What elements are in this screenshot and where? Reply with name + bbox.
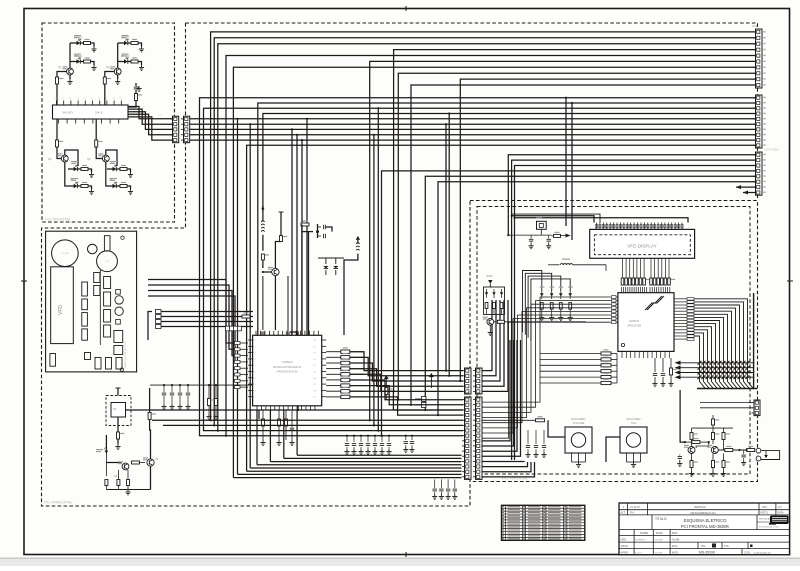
separator line panel [99, 270, 101, 345]
pin U1 top 11 [300, 331, 302, 336]
resistor R34 [208, 399, 211, 406]
capacitor C9 row [346, 436, 348, 442]
pin tick top keyboard block 5 [84, 101, 86, 106]
pin U2 right 14 [674, 338, 687, 340]
wire X2 stem down [540, 229, 542, 235]
wire bottom bus net6 [270, 461, 461, 463]
wire U2 right net7 staircase [694, 317, 729, 388]
ground phones 3 [723, 471, 725, 474]
wire bottom bus net2 [238, 473, 462, 475]
wire U2 left net3 to CN5 [482, 304, 610, 412]
pin U2 right 13 [674, 335, 687, 337]
wire panel signal 1 to U1 [148, 280, 235, 344]
pin U1 top 9 [291, 331, 293, 336]
wire loop net1 [523, 271, 542, 333]
pin tick top keyboard block 7 [99, 101, 101, 106]
svg-text:ASS.: ASS. [762, 506, 768, 509]
pin tick top keyboard block 10 [120, 101, 122, 106]
encoder VOLUME ground [578, 462, 580, 465]
resistor R61 top [690, 433, 693, 440]
ground D15 [560, 315, 562, 318]
svg-text:MAT.: MAT. [672, 531, 678, 535]
pin U1 top 8 [286, 331, 288, 336]
pin U1 top 3 [264, 331, 266, 336]
wire caps bus [318, 257, 344, 259]
svg-text:P14: P14 [313, 365, 316, 367]
svg-text:P15: P15 [313, 372, 316, 374]
pin tick top keyboard block 4 [77, 101, 79, 106]
pin U2 left 4 [610, 307, 618, 309]
dashed outline PCI FRONTAL keyboard board (top-left) [42, 23, 175, 222]
wire U1 bottom pin 2 drop [269, 410, 271, 461]
pin U2 right 5 [674, 310, 687, 312]
small square r1 [116, 290, 121, 295]
svg-text:ROBERTO: ROBERTO [635, 540, 646, 542]
capacitor C12 row [367, 436, 369, 442]
pin U1 top 15 [317, 331, 319, 336]
resistor Rh3 display ladder [540, 364, 601, 366]
svg-text:VOLUME: VOLUME [61, 253, 69, 255]
pin tick top keyboard block 2 [63, 101, 65, 106]
connector CN-C 4-pad (mid-left) [156, 310, 162, 314]
pin U2 bottom 8 [651, 351, 653, 358]
resistor R36 [485, 303, 488, 309]
ground C33 [543, 452, 545, 455]
pin U2 top-a 5 [629, 287, 631, 293]
button column mid c [104, 310, 111, 323]
svg-text:GND: GND [486, 274, 494, 278]
wire rail top extra [512, 214, 600, 222]
pin U2 top-b 8 [664, 287, 666, 293]
transistor Q8 right board [487, 318, 494, 325]
VFD window [51, 267, 74, 344]
encoder JOG leg 1 [626, 453, 628, 462]
ground C10 [353, 449, 355, 452]
wire U2 right net1 staircase [694, 299, 753, 388]
dot remote junction [297, 409, 299, 411]
wire CN4 pin5 into display board [482, 300, 508, 391]
wire U2 right net13 staircase [694, 336, 705, 388]
connector CN5a lower-left column [465, 397, 472, 479]
encoder VOLUME body [565, 427, 592, 453]
LED D8 row [113, 184, 117, 188]
wire Q3 emitter [65, 162, 74, 186]
resistor R38 [500, 303, 503, 309]
wire key net3 branch down to U1 [291, 129, 293, 335]
capacitor C2 [262, 276, 264, 330]
pin U1 left 2 [248, 345, 253, 347]
pin U2 top-b 2 [651, 287, 653, 293]
pad row mid-left of IC [226, 326, 230, 331]
wire panel signal 4 to U1 [148, 296, 235, 362]
power rail vertical right of U2 [753, 293, 755, 389]
capacitor C14 row [381, 436, 383, 442]
wire remote out right [126, 409, 299, 411]
svg-text:27.11.97: 27.11.97 [630, 505, 640, 509]
crystal X1 circuit [302, 231, 313, 233]
wire U1 bottom pin 1 drop [256, 410, 258, 465]
wire tap down to X2 area 1 [565, 98, 567, 226]
pin tick bottom keyboard block 3 [75, 119, 77, 124]
pin U1 left 4 [248, 358, 253, 360]
pin tick bottom keyboard block 5 [92, 119, 94, 124]
wire bus-A net5 (corner at 226,56) to CN1 pin5 [226, 56, 756, 436]
ground D7 [130, 172, 132, 175]
resistor R65 [692, 441, 700, 444]
ground C14 [381, 449, 383, 452]
ground remote [117, 444, 119, 447]
wire U1 bottom pin 4 drop [296, 410, 298, 455]
svg-text:Q4: Q4 [87, 157, 91, 161]
capacitor C10 row [353, 436, 355, 442]
title block outline [619, 503, 790, 555]
ground C1 [138, 86, 140, 89]
resistor R58 [670, 358, 672, 368]
pin U1 left 1 [248, 339, 253, 341]
panel small btn mid [85, 353, 91, 360]
wire U1 data2 to CN4 pin [350, 363, 463, 381]
button mid f [114, 346, 123, 355]
connector CN-A board-edge (5-pin) [173, 116, 179, 143]
wire U2 right net4 staircase [694, 308, 741, 388]
wire loop net4 [531, 279, 570, 341]
wire U1 data3 to CN4 pin [350, 369, 463, 387]
resistor bank RB2 above U2 [650, 278, 653, 285]
wire L3 drop [605, 265, 607, 271]
wire keyboard net 5 CN-B to CN2 [190, 139, 756, 141]
wire feeder net B to CN5 [163, 424, 463, 426]
svg-text:P9: P9 [254, 397, 256, 399]
svg-text:CD5023: CD5023 [629, 319, 640, 323]
connector CN3 right edge (8-pin) [756, 152, 763, 195]
svg-text:CN ST SAIDA: CN ST SAIDA [764, 149, 779, 152]
resistor bank RB1 above U2 [621, 278, 624, 285]
pin U1 top 14 [313, 331, 315, 336]
wire bus-C net1 to CN3 pin1 (VFD left rail) [508, 155, 755, 235]
wire bus-A net7 (corner at 233,67) to CN1 pin7 [233, 67, 755, 477]
wire U2 right net6 staircase [694, 314, 733, 388]
small square r2 [116, 320, 121, 325]
wire panel signal 3 to U1 [148, 291, 235, 356]
arrow right R35 [561, 235, 567, 237]
wire U2 right net12 staircase [694, 333, 709, 388]
wire Q1 emitter to ground [69, 75, 71, 79]
svg-text:DES.: DES. [621, 538, 628, 542]
svg-text:Q2: Q2 [106, 65, 110, 69]
resistor R6 remote [117, 432, 120, 439]
remote sensor dashed box [106, 396, 131, 426]
wire bus-A net1 (corner at 211,32) to CN1 pin1 [211, 32, 756, 420]
svg-text:P10: P10 [313, 340, 316, 342]
pin U2 top-b 7 [662, 287, 664, 293]
encoder JOG body [620, 427, 647, 453]
wire CN6 feed [700, 402, 754, 404]
svg-text:PAINEL FRONTAL MD-3500K: PAINEL FRONTAL MD-3500K [124, 341, 127, 368]
inductor L1 [262, 196, 264, 221]
wire rail tee to VFD right [515, 218, 689, 223]
wire U2 left net7 to CN5 [482, 319, 610, 433]
wire CN5 pin9 into display board [482, 340, 510, 441]
svg-text:MD-3500K: MD-3500K [699, 551, 716, 555]
wire U1 data7 to CN4 pin [350, 391, 463, 410]
ground C15 [388, 449, 390, 452]
wire U1 data0 to CN4 pin [350, 352, 463, 371]
wire CN-C pad4 to main IC [161, 326, 253, 328]
resistor R3 near block [128, 100, 136, 107]
capacitor C29 left [678, 456, 682, 458]
ground phones 2 [712, 471, 714, 474]
pad P1 left of U1 [235, 348, 241, 351]
resistor ladder R21 of U1 [326, 356, 341, 358]
pin U2 top-a 2 [623, 287, 625, 293]
svg-text:COD: COD [744, 550, 750, 554]
wire Q8 net right [504, 321, 586, 323]
encoder JOG shaft [626, 433, 640, 447]
bottom row button 2 [106, 358, 112, 370]
svg-text:Q3: Q3 [48, 157, 52, 161]
pin U2 top-a 11 [642, 287, 644, 293]
pin U1 right 7 [322, 377, 327, 379]
svg-text:ALT.: ALT. [621, 511, 626, 515]
ground C12 [367, 449, 369, 452]
pin U2 top-a 12 [644, 287, 646, 293]
pin U2 right 9 [674, 323, 687, 325]
component X2 crystal box [537, 221, 547, 229]
wire comb to RB1 5 [636, 258, 638, 271]
pin U2 bottom 11 [664, 351, 666, 358]
supply arrow mid zone [429, 373, 434, 377]
ground C32 [535, 452, 537, 455]
wire U2 right net2 staircase [694, 302, 749, 388]
svg-text:P5: P5 [254, 372, 256, 374]
wire CN4 pin4 into display board [482, 300, 504, 386]
pin U2 left 6 [610, 314, 618, 316]
pin U2 right 10 [674, 326, 687, 328]
frame centering tick bottom [405, 552, 407, 557]
polarized capacitor C7 [335, 266, 337, 268]
wire CN-C pad2 to main IC [161, 316, 253, 318]
ground U1 bottom 1 [262, 440, 264, 443]
pin tick bottom keyboard block 7 [109, 119, 111, 124]
wire Q2 emitter to ground [117, 75, 119, 79]
wire bottom bus net3 [247, 470, 462, 472]
svg-text:DESCRIMINACAO: DESCRIMINACAO [690, 511, 716, 515]
wire Q10 out right [718, 449, 755, 451]
transistor Q10 phones [711, 447, 718, 454]
pin U1 bottom 5 [274, 406, 276, 411]
connector CN1 right edge (10-pin) [756, 29, 763, 88]
resistor R31 [278, 419, 281, 426]
resistor R33 mid zone [384, 375, 389, 379]
company logo CCE [769, 516, 789, 525]
resistor R9b [117, 480, 120, 486]
resistor ladder R22 of U1 [326, 362, 341, 364]
resistor R35 right of X2 [552, 235, 553, 237]
wire loop net3 [528, 276, 561, 338]
svg-text:P2: P2 [254, 353, 256, 355]
transistor Q4 [96, 151, 102, 159]
svg-text:P19: P19 [313, 397, 316, 399]
transistor Q5 [122, 463, 129, 470]
resistor R11 [280, 236, 283, 242]
frame centering tick left [21, 280, 27, 282]
wire X2 cross bus [529, 234, 551, 236]
wire crystal to IC 2 [308, 232, 310, 335]
button column mid d [104, 325, 111, 337]
wire U2 left net8 to CN5 [482, 322, 610, 438]
resistor R1 base [57, 72, 67, 78]
encoder VOLUME leg 2 [578, 453, 580, 462]
svg-text:P8: P8 [254, 390, 256, 392]
svg-text:P11: P11 [313, 346, 316, 348]
connector CN4a upper-left column [465, 368, 472, 394]
pad P7 left of U1 [235, 386, 241, 389]
resistor R12 crystal [301, 223, 309, 226]
pin U1 top 2 [259, 331, 261, 336]
svg-text:ESQUADRIAS US-DE: ESQUADRIAS US-DE [759, 526, 780, 529]
pin U2 bottom 9 [655, 351, 657, 358]
svg-text:P12: P12 [313, 353, 316, 355]
pad P5 left of U1 [235, 373, 241, 376]
phones jack circle 2 [115, 307, 123, 315]
LED D4 [118, 61, 124, 63]
wire comb to RB2 5 [664, 258, 666, 271]
polarized capacitor C6 [325, 266, 327, 268]
wire Q1 collector [69, 43, 71, 68]
connector pad pair mid zone [422, 397, 427, 402]
wire CN5 pin15 into display board [482, 462, 531, 472]
wire comb to RB1 4 [632, 258, 634, 271]
wire bus-B net2 to CN2 pin2 [258, 103, 756, 335]
wire cluster top rail [105, 435, 107, 448]
pin U1 left 10 [248, 396, 253, 398]
svg-text:CD5022: CD5022 [281, 360, 292, 364]
wire bus-B net10 to CN2 pin10 [247, 145, 756, 471]
ground C30 [743, 460, 745, 463]
pin U2 top-a 1 [621, 287, 623, 293]
resistor R37 [493, 303, 496, 309]
pin tick top keyboard block 8 [106, 101, 108, 106]
wire key net4 branch down to U1 [296, 135, 298, 335]
svg-text:NOME: NOME [640, 531, 648, 535]
pin U1 right 1 [322, 339, 327, 341]
wire branch vertical net1 x=374 [373, 135, 375, 426]
headphone jack J1 [756, 448, 761, 453]
revision table text smudges [508, 506, 521, 507]
svg-text:MICROCONTROLER W: MICROCONTROLER W [273, 365, 302, 369]
svg-text:Q1: Q1 [58, 65, 62, 69]
wire U2 left net2 to CN5 [482, 301, 610, 408]
wire horizontal signal3 with arrow [679, 372, 754, 374]
diode D10 [486, 289, 488, 298]
resistor R42 [559, 303, 562, 310]
wire U1 bottom pin 3 drop [283, 410, 285, 458]
wire L1 bottom [262, 235, 264, 251]
encoder JOG ground [633, 462, 635, 465]
resistor ladder R20 of U1 [326, 351, 341, 353]
pin U2 top-a 8 [635, 287, 637, 293]
pin U2 top-a 9 [637, 287, 639, 293]
wire remote vcc top [117, 388, 119, 396]
pin U2 top-b 6 [660, 287, 662, 293]
pin U1 left 9 [248, 389, 253, 391]
resistor R64b bottom [722, 461, 725, 468]
resistor R64 bottom [712, 461, 715, 468]
revision history table [502, 505, 585, 540]
capacitor C17 filter [171, 384, 173, 386]
wire U2 right net11 staircase [694, 330, 713, 388]
wire U1 data4 to CN4 pin [350, 374, 463, 391]
wire CN5 pin14 into display board [482, 462, 528, 467]
wire key net1 branch deep [236, 118, 238, 120]
pin U1 bottom 9 [292, 406, 294, 411]
pad P2 left of U1 [235, 354, 241, 357]
wire U1 data1 to CN4 pin [350, 357, 463, 375]
pin U2 bottom 2 [625, 351, 627, 358]
capacitor C20 [530, 235, 532, 238]
wire horizontal signal2 with arrow [679, 367, 754, 369]
ground D8 [130, 189, 132, 192]
pin U2 bottom 5 [638, 351, 640, 358]
panel screw bottom-right [120, 368, 123, 371]
resistor ladder R27 of U1 [326, 390, 341, 392]
resistor Rh4 display ladder [540, 370, 601, 372]
capacitor C1 near block [135, 90, 137, 94]
pin U2 right 8 [674, 320, 687, 322]
svg-text:P1: P1 [254, 346, 256, 348]
svg-text:VFD: VFD [58, 305, 64, 315]
pin U2 left 8 [610, 321, 618, 323]
svg-text:P18: P18 [313, 390, 316, 392]
wire R8 to Q6 [140, 462, 146, 464]
svg-text:VOLUME: VOLUME [573, 421, 585, 425]
wire remote branch up [290, 332, 298, 410]
wire block to Q4 [95, 119, 97, 140]
wire riser to remote net [149, 388, 151, 396]
wire R65 to Q9 base [696, 442, 709, 448]
ground C11 [360, 449, 362, 452]
pin U1 right 9 [322, 389, 327, 391]
junction dot key net5 [301, 139, 303, 141]
wire Q8 out [494, 321, 497, 323]
pin U2 bottom 12 [668, 351, 670, 358]
wire bus-C net5 corner to center [425, 176, 755, 410]
ground D5 [91, 172, 93, 175]
wire key net2 branch deep [249, 123, 251, 125]
wire net x307 down to U1 [306, 119, 308, 335]
svg-text:P17: P17 [313, 384, 316, 386]
VFD pin comb [596, 223, 598, 230]
wire U2 right net5 staircase [694, 311, 737, 388]
wire Q5 base rail [106, 462, 121, 464]
svg-text:PCI FRONTAL MD-3500K: PCI FRONTAL MD-3500K [681, 524, 730, 529]
wire bus-A net3 (corner at 218,44) to CN1 pin3 [218, 44, 756, 431]
pin U1 bottom 3 [265, 406, 267, 411]
capacitor C19 filter [187, 384, 189, 386]
svg-text:D3 LED: D3 LED [121, 37, 130, 40]
svg-text:P3: P3 [254, 359, 256, 361]
LED D3 [118, 42, 124, 44]
wire comb to RB1 7 [643, 258, 645, 271]
wire encoder volume out [548, 420, 565, 437]
svg-text:P7: P7 [254, 384, 256, 386]
pin U2 left 7 [610, 318, 618, 320]
pin U2 bottom 3 [630, 351, 632, 358]
encoder VOLUME leg 3 [585, 453, 587, 462]
pin U1 right 2 [322, 345, 327, 347]
wire comb to RB1 1 [622, 258, 624, 271]
capacitor C18 filter [179, 384, 181, 386]
